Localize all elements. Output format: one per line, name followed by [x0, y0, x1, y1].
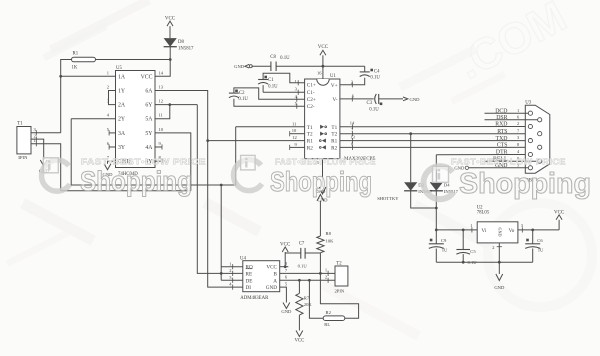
wire U2 pin3 to VCC [518, 229, 559, 231]
resistor R8 [317, 236, 324, 253]
wire Vi rail [436, 229, 477, 231]
svg-text:B: B [274, 271, 278, 277]
pin16 VCC flag of U1 [322, 55, 324, 79]
svg-text:2: 2 [325, 275, 327, 280]
svg-text:1: 1 [229, 261, 231, 266]
svg-text:1Y: 1Y [118, 89, 126, 95]
wire U5 1A input [61, 75, 116, 77]
capacitor C7 wire [285, 252, 301, 254]
ground under U2 [496, 274, 503, 281]
node A junction RL [308, 279, 311, 282]
svg-text:0.1U: 0.1U [280, 56, 290, 61]
svg-text:R2: R2 [326, 310, 332, 315]
wire U2 pin2 ground stem [498, 243, 500, 274]
svg-text:VCC: VCC [318, 45, 329, 50]
svg-text:C1+: C1+ [307, 83, 316, 89]
stub U5 4A [155, 146, 162, 148]
capacitor C1 plates [258, 79, 268, 81]
svg-text:R1: R1 [331, 139, 337, 145]
resistor R7 [296, 293, 303, 315]
svg-text:6A: 6A [145, 89, 153, 95]
DB9 signal GND [469, 167, 529, 169]
wire T1 pin2 to ground [31, 139, 44, 160]
svg-text:U2: U2 [477, 205, 483, 210]
svg-text:12: 12 [159, 99, 164, 104]
wire D2 cathode join [411, 191, 437, 208]
node diode join [435, 207, 438, 210]
svg-text:C6: C6 [537, 238, 543, 243]
DB9 signal DSR [485, 119, 538, 121]
bottom rail [436, 261, 532, 263]
wire U4 B to T2 [280, 272, 335, 274]
svg-text:GND: GND [410, 97, 421, 102]
wire net 2Y/T1IN horizontal [71, 119, 236, 185]
wire V- to C3 [340, 98, 374, 100]
svg-text:1N5817: 1N5817 [178, 47, 194, 52]
svg-text:GND: GND [497, 227, 502, 236]
svg-text:1: 1 [295, 79, 297, 84]
diode D2 [404, 182, 417, 191]
svg-text:R2: R2 [307, 145, 313, 151]
VCC flag above U4 [284, 252, 286, 267]
svg-text:D8: D8 [178, 40, 184, 45]
svg-text:RL: RL [324, 322, 330, 327]
svg-text:10: 10 [292, 128, 297, 133]
svg-text:FAST•BEST•LOW PRICE: FAST•BEST•LOW PRICE [451, 157, 566, 166]
wire U5 2Y output [71, 118, 115, 120]
capacitor C4 branch [364, 66, 366, 72]
svg-text:1: 1 [325, 268, 327, 273]
svg-text:11: 11 [159, 113, 163, 118]
wire 6Y vertical to U4 RE [197, 105, 243, 274]
node 1A tap [59, 75, 62, 78]
VCC flag under R7 [296, 331, 303, 337]
svg-text:GND: GND [234, 64, 245, 69]
svg-text:RXD: RXD [495, 122, 507, 128]
svg-text:C8: C8 [270, 55, 276, 60]
svg-text:DI: DI [246, 285, 252, 291]
svg-text:R1: R1 [73, 52, 79, 57]
wire R1 left down to T1 pin3 [61, 60, 72, 133]
svg-text:1A: 1A [118, 74, 126, 80]
svg-text:U4: U4 [240, 256, 246, 261]
svg-text:U5: U5 [116, 66, 122, 71]
svg-text:C2-: C2- [307, 104, 315, 110]
node R1/D8/VCC junction [169, 58, 172, 61]
capacitor C7 [300, 248, 302, 259]
capacitor C3 [375, 94, 377, 104]
node U5 pin12 jumper [168, 103, 171, 106]
wire node down to U5 pin14 [155, 60, 170, 77]
svg-text:2Y: 2Y [118, 117, 126, 123]
svg-text:11: 11 [292, 121, 296, 126]
wire RTS down to D2 [410, 134, 412, 183]
stub U5 3Y [109, 146, 115, 148]
svg-text:1U: 1U [538, 247, 544, 252]
node A junction R7 [298, 279, 301, 282]
svg-text:DE: DE [246, 278, 253, 284]
svg-text:T2: T2 [307, 132, 313, 138]
capacitor C5 [462, 230, 464, 250]
svg-text:12: 12 [292, 135, 297, 140]
wire R1OUT to U1 [208, 140, 305, 142]
wire R7 to VCC flag [298, 315, 300, 330]
stub U5 4Y [155, 160, 162, 162]
jumper U5 1Y to 2A [109, 91, 116, 105]
wire A to R7 [298, 280, 300, 293]
svg-text:DTR: DTR [496, 150, 508, 156]
svg-text:A: A [273, 278, 277, 284]
svg-text:20K: 20K [304, 302, 313, 307]
wire DTR down to D4 [435, 155, 437, 183]
diode D4 [430, 182, 443, 191]
node U4 VCC [284, 265, 287, 268]
svg-text:2: 2 [229, 268, 231, 273]
node C5 bottom [462, 261, 465, 264]
watermark group 3 [424, 157, 591, 200]
svg-text:13: 13 [350, 135, 355, 140]
svg-text:0.1U: 0.1U [268, 85, 278, 90]
svg-text:GND: GND [266, 285, 277, 291]
stub U1 R2OUT [290, 146, 305, 148]
svg-text:GND: GND [494, 285, 505, 290]
svg-text:C9: C9 [441, 238, 447, 243]
ground under T1 [40, 160, 47, 166]
wire T1 pin1 down [31, 144, 61, 191]
ground under U4 [283, 303, 290, 309]
svg-text:VCC: VCC [280, 242, 291, 247]
power VCC flag top-left [169, 26, 171, 38]
wire U4 VCC pin [280, 266, 289, 268]
svg-text:C5: C5 [470, 249, 476, 254]
svg-text:T2: T2 [331, 132, 337, 138]
node RTS diode tap [409, 132, 412, 135]
capacitor C1 loop [263, 73, 305, 83]
svg-text:2PIN: 2PIN [335, 289, 345, 294]
svg-text:RTS: RTS [497, 129, 507, 135]
watermark group 2 [234, 155, 377, 197]
wire D8 cathode to R1 node [169, 47, 171, 60]
diode D8 [164, 38, 177, 47]
svg-text:C7: C7 [299, 242, 305, 247]
svg-text:VCC: VCC [141, 74, 153, 80]
svg-text:0.1U: 0.1U [369, 108, 379, 113]
svg-text:Shopping: Shopping [80, 166, 192, 197]
node B junction [319, 272, 322, 275]
svg-text:ADM483EAR: ADM483EAR [240, 296, 269, 301]
wire T2OUT to DB9 RTS [340, 133, 538, 135]
RS485 transceiver U4 ADM483EAR [243, 261, 280, 292]
svg-text:0.1U: 0.1U [298, 264, 308, 269]
wire U4 RO [221, 266, 243, 268]
wire RL loop [320, 273, 358, 318]
wire D4 cathode to Vi rail [435, 191, 437, 230]
wire U4 A to T2 [280, 279, 335, 281]
node C6 top [531, 229, 534, 232]
capacitor C8 rail [252, 65, 271, 67]
node VCC rail C8 [322, 65, 325, 68]
capacitor C2 plates [229, 92, 239, 94]
capacitor C4 plates [360, 71, 370, 73]
svg-text:T2: T2 [336, 262, 342, 267]
wire T1 pin3 [31, 132, 61, 134]
node ground rail [498, 261, 501, 264]
svg-text:2A: 2A [118, 103, 126, 109]
svg-text:VCC: VCC [554, 210, 565, 215]
wire DTR from diode branch [436, 154, 528, 156]
svg-text:C3: C3 [367, 101, 373, 106]
svg-text:U1: U1 [330, 74, 336, 79]
svg-text:1: 1 [517, 108, 519, 113]
connector T1 [17, 127, 31, 154]
svg-text:2: 2 [107, 85, 109, 90]
wire R8 to B [319, 253, 321, 274]
svg-text:C4: C4 [374, 70, 380, 75]
svg-text:R8: R8 [326, 231, 332, 236]
svg-text:0.1U: 0.1U [238, 97, 248, 102]
wire RL to A [309, 280, 323, 318]
svg-text:6Y: 6Y [145, 103, 153, 109]
wire R1 right to node [96, 59, 171, 61]
svg-text:Vi: Vi [481, 228, 486, 234]
capacitor C2 loop [234, 88, 305, 99]
wire U5 pin10 5Y down [155, 133, 191, 191]
svg-text:D4: D4 [444, 183, 450, 188]
svg-text:C1: C1 [268, 78, 274, 83]
svg-text:10K: 10K [326, 238, 335, 243]
svg-text:C1-: C1- [307, 90, 315, 96]
resistor R2 [323, 316, 345, 321]
capacitor C6 [532, 230, 534, 244]
watermark group 1 [42, 158, 207, 197]
VCC flag right of U2 [558, 220, 560, 230]
svg-text:16: 16 [317, 71, 322, 76]
wire U5 pin12 6Y [155, 104, 197, 106]
svg-text:SHOTTKY: SHOTTKY [377, 196, 399, 201]
svg-text:DSR: DSR [496, 115, 507, 121]
wire T1IN to U1 [236, 126, 305, 128]
svg-text:Shopping: Shopping [270, 166, 372, 197]
svg-text:VCC: VCC [294, 339, 304, 344]
svg-text:V+: V+ [331, 83, 338, 89]
svg-text:4A: 4A [145, 145, 153, 151]
node C5 top [462, 229, 465, 232]
wire U5 pin13 6A to node [155, 91, 208, 141]
wire U4 DE [221, 279, 243, 281]
RS232 transceiver U1 MAX202ECPE [305, 79, 340, 159]
svg-text:1K: 1K [72, 66, 78, 71]
svg-text:10: 10 [159, 127, 164, 132]
svg-text:VCC: VCC [266, 265, 277, 271]
wire C3 to ground flag [379, 98, 403, 100]
capacitor C8 [270, 62, 272, 72]
svg-text:1: 1 [107, 70, 109, 75]
wire U5 GND pin to ground [108, 161, 116, 164]
svg-text:R2: R2 [331, 145, 337, 151]
svg-text:T1: T1 [17, 122, 23, 127]
node R1OUT junction [206, 139, 209, 142]
svg-text:Vo: Vo [509, 228, 515, 234]
svg-text:14: 14 [159, 70, 164, 75]
svg-text:1: 1 [470, 223, 472, 228]
inverter U5 74HC04D [116, 71, 156, 168]
svg-text:1U: 1U [442, 247, 448, 252]
svg-text:2: 2 [492, 245, 494, 250]
svg-text:RE: RE [246, 271, 253, 277]
jumper U5 6Y to 5A [155, 105, 170, 119]
resistor R1 [72, 57, 96, 62]
wire U1 pin15 to ground [322, 159, 324, 187]
regulator U2 78L05 [477, 222, 518, 243]
svg-text:3A: 3A [118, 131, 126, 137]
svg-text:3Y: 3Y [118, 145, 126, 151]
svg-text:5A: 5A [145, 117, 153, 123]
svg-text:5Y: 5Y [145, 131, 153, 137]
ground flag right of C3 [403, 97, 408, 101]
node RE junction [220, 272, 223, 275]
wire R2IN to DB9 CTS [340, 146, 538, 148]
wire branch down to U4 [220, 185, 222, 280]
svg-text:C2: C2 [239, 91, 245, 96]
wire T1OUT to DB9 RXD [340, 126, 528, 128]
node Vi rail left [435, 229, 438, 232]
stub U5 3A [109, 132, 115, 134]
ground under U5 [104, 164, 111, 170]
svg-text:13: 13 [159, 85, 164, 90]
svg-text:DCD: DCD [495, 108, 507, 114]
svg-text:T1: T1 [331, 125, 337, 131]
svg-text:78L05: 78L05 [477, 211, 490, 216]
DB9 signal BELL [485, 160, 538, 162]
svg-text:CTS: CTS [497, 143, 508, 149]
svg-text:GND: GND [281, 309, 292, 314]
ground under U1 [319, 187, 326, 194]
DB9 signal DCD [485, 112, 529, 114]
svg-text:VCC: VCC [165, 17, 176, 22]
svg-text:Shopping: Shopping [459, 168, 591, 200]
wire net 5Y/T1pin1 horizontal [61, 190, 191, 192]
stub U1 T2IN [290, 133, 305, 135]
svg-text:0.1U: 0.1U [370, 75, 380, 80]
svg-text:TXD: TXD [496, 136, 508, 142]
svg-text:R1: R1 [307, 139, 313, 145]
svg-text:RO: RO [246, 265, 253, 271]
svg-text:T1: T1 [307, 125, 313, 131]
wire R1IN to DB9 TXD [340, 140, 528, 142]
svg-text:2: 2 [517, 121, 519, 126]
capacitor C9 [435, 230, 437, 244]
svg-text:V-: V- [333, 97, 338, 103]
node RO branch [220, 184, 223, 187]
svg-text:3PIN: 3PIN [18, 155, 28, 160]
wire U4 GND pin to ground [280, 287, 287, 302]
wire 6A vertical to U4 DI [208, 141, 243, 288]
svg-text:C2+: C2+ [307, 97, 316, 103]
connector T2 [335, 266, 348, 286]
